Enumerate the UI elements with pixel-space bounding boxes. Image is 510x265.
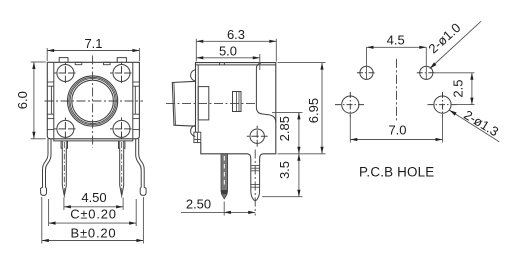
svg-text:5.0: 5.0 <box>219 43 237 58</box>
corner contact circle top-left <box>54 62 77 85</box>
left side tab details <box>47 82 54 130</box>
front face dome top <box>191 70 196 81</box>
dimension 3.5 <box>262 154 303 197</box>
dimension 6.95 <box>278 63 326 154</box>
lid plate lower edge <box>196 64 276 66</box>
outer bent leg left <box>41 139 51 196</box>
dimension C +/- 0.20 <box>49 199 137 226</box>
corner contact circle bottom-right <box>110 118 133 141</box>
inner straight leg left <box>61 141 67 200</box>
dimension 6.3 <box>196 39 276 62</box>
svg-text:7.0: 7.0 <box>388 123 406 138</box>
dimension 2.50 <box>181 202 255 216</box>
leader 2-phi1.3 <box>449 110 499 142</box>
dimension 2.5 <box>434 73 475 105</box>
dimension 7.1 <box>47 48 139 61</box>
horizontal centerline left view <box>45 100 144 102</box>
hole bottom-left <box>335 92 365 117</box>
button flange <box>198 87 209 120</box>
bottom mounting pin <box>251 162 260 201</box>
top edge bump left <box>59 58 68 63</box>
body bottom lip <box>54 139 133 141</box>
svg-text:B±0.20: B±0.20 <box>71 226 117 241</box>
push button side <box>172 81 195 126</box>
svg-text:2.50: 2.50 <box>186 197 211 212</box>
dimension 5.0 <box>196 54 259 70</box>
corner contact circle top-right <box>110 62 133 85</box>
svg-text:2-ø1.0: 2-ø1.0 <box>426 20 464 56</box>
horizontal centerline side view <box>166 103 255 105</box>
vertical centerline pcb <box>396 59 398 121</box>
right side tab details <box>133 82 140 130</box>
center button circle (multi-ring) <box>68 76 118 126</box>
hole top-left <box>357 66 376 79</box>
outer bent leg right <box>136 139 146 196</box>
dimension 4.50 <box>64 198 123 211</box>
svg-text:C±0.20: C±0.20 <box>70 206 117 221</box>
svg-text:6.95: 6.95 <box>306 98 321 123</box>
top edge bump right <box>117 58 126 63</box>
svg-text:2.5: 2.5 <box>451 80 466 98</box>
svg-text:4.50: 4.50 <box>81 190 106 205</box>
body outline side view <box>196 63 276 162</box>
dimension 7.0 <box>350 114 442 143</box>
front thin leg side view <box>221 154 228 199</box>
dimension B +/- 0.20 <box>42 197 144 244</box>
front face bottom tab <box>194 132 201 142</box>
face plate inner line <box>197 65 199 132</box>
dimension 6.0 <box>31 62 46 139</box>
switch body outer frame <box>47 62 139 139</box>
svg-text:2-ø1.3: 2-ø1.3 <box>461 107 501 139</box>
dimension 4.5 <box>367 47 427 79</box>
front face dome bottom <box>191 125 196 136</box>
body slot <box>233 92 242 112</box>
hole top-right <box>417 66 436 79</box>
hole bottom-right <box>428 92 458 117</box>
dimension 2.85 <box>272 112 326 153</box>
top edge notch left <box>75 62 82 64</box>
svg-text:P.C.B HOLE: P.C.B HOLE <box>359 165 434 180</box>
lid tab bump <box>220 63 225 65</box>
svg-text:3.5: 3.5 <box>277 161 292 179</box>
svg-text:6.0: 6.0 <box>15 91 30 109</box>
vertical centerline left view <box>92 56 94 148</box>
body inner side walls <box>54 63 133 139</box>
pin centerline <box>254 150 256 216</box>
svg-text:2.85: 2.85 <box>277 116 292 141</box>
top edge notch right <box>104 62 111 64</box>
leader 2-phi1.0 <box>430 21 481 68</box>
svg-text:7.1: 7.1 <box>84 36 102 51</box>
inner straight leg right <box>119 141 125 200</box>
svg-text:4.5: 4.5 <box>387 32 405 47</box>
svg-text:6.3: 6.3 <box>227 27 245 42</box>
internal bracket bend line <box>256 63 275 122</box>
pivot hole circle <box>247 126 268 147</box>
corner contact circle bottom-left <box>54 118 77 141</box>
